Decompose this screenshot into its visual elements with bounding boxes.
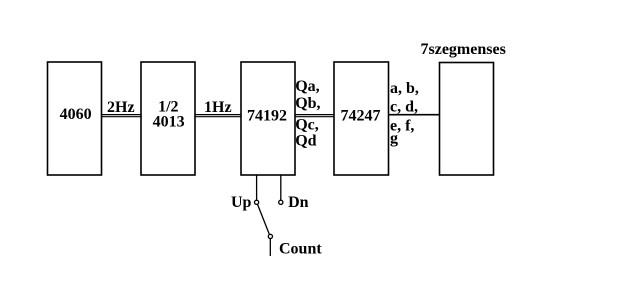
wire Dn (from 74192 bottom to Dn terminal) <box>280 175 282 200</box>
svg-text:Up: Up <box>231 194 252 211</box>
block U4 74247 BCD to 7-segment decoder <box>334 62 389 175</box>
svg-text:Qb,: Qb, <box>295 95 320 112</box>
svg-text:Qa,: Qa, <box>295 78 319 95</box>
wire net 2Hz (double line from 4060 to 4013) <box>102 115 142 117</box>
svg-text:4060: 4060 <box>60 106 92 123</box>
wire segment bus (single line from 74247 to display) <box>389 114 440 116</box>
block U2 1/2 4013 flip-flop <box>141 62 195 175</box>
svg-text:Qd: Qd <box>295 132 316 149</box>
svg-text:1Hz: 1Hz <box>204 99 232 116</box>
svg-text:Count: Count <box>279 241 322 258</box>
wire Count stub <box>269 239 271 256</box>
wire net 1Hz (double line from 4013 to 74192) <box>195 115 241 117</box>
wire Up (from 74192 bottom to Up terminal) <box>256 175 258 200</box>
label 1/2 4013 <box>153 99 185 131</box>
svg-text:g: g <box>390 130 398 147</box>
switch arm (diagonal from Up terminal to Count terminal) <box>258 204 270 234</box>
svg-text:Qc,: Qc, <box>295 116 319 133</box>
svg-text:2Hz: 2Hz <box>107 99 135 116</box>
block U1 4060 oscillator/divider <box>48 62 102 175</box>
svg-text:c, d,: c, d, <box>390 99 418 116</box>
terminal Up circle <box>255 200 259 204</box>
block 7-segment display <box>440 63 494 176</box>
svg-text:7szegmenses: 7szegmenses <box>421 41 506 58</box>
svg-text:Dn: Dn <box>288 194 309 211</box>
svg-text:74192: 74192 <box>247 108 287 125</box>
svg-text:a, b,: a, b, <box>390 80 419 97</box>
terminal Dn circle <box>279 200 283 204</box>
block U3 74192 up/down counter <box>241 62 295 175</box>
svg-text:4013: 4013 <box>153 114 185 131</box>
svg-text:74247: 74247 <box>341 108 381 125</box>
terminal Count circle <box>268 234 272 238</box>
wire Q bus (double line from 74192 to 74247) <box>295 115 334 117</box>
